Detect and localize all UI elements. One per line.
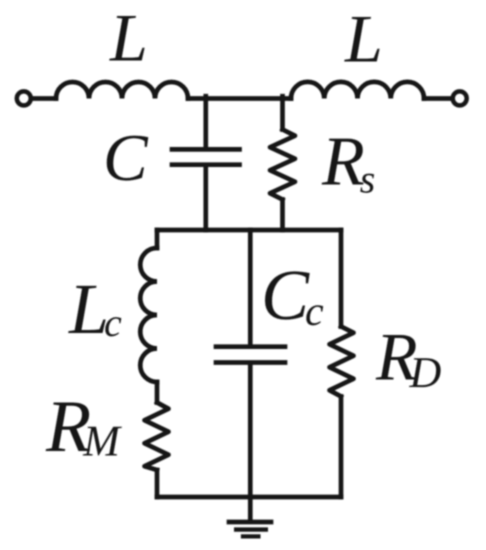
resistor RD: [330, 327, 354, 397]
terminal port right: [453, 91, 467, 105]
wire top rail between inductors: [188, 96, 291, 101]
wire RD to bottom bus: [339, 397, 344, 498]
wire RM to bottom bus: [155, 470, 160, 497]
svg-text:RD: RD: [375, 319, 442, 398]
capacitor C: [172, 149, 240, 164]
wire L2 to right terminal: [424, 96, 453, 101]
capacitor Cc: [216, 347, 285, 363]
wire bus to capacitor Cc: [248, 230, 253, 345]
svg-text:Cc: Cc: [261, 255, 324, 335]
svg-text:Rs: Rs: [321, 124, 375, 202]
svg-text:L: L: [344, 1, 383, 77]
terminal port left: [17, 91, 31, 105]
svg-text:L: L: [109, 0, 148, 76]
svg-text:Lc: Lc: [68, 269, 122, 349]
svg-text:C: C: [103, 121, 149, 195]
wire bottom bus: [157, 495, 341, 500]
wire bus to inductor Lc: [155, 230, 160, 248]
resistor Rs: [270, 130, 295, 200]
wire Lc to RM: [155, 382, 160, 403]
inductor L1: [56, 82, 188, 99]
svg-text:RM: RM: [45, 386, 122, 468]
ground: [229, 520, 271, 525]
wire node to resistor Rs: [280, 96, 285, 129]
wire bus to resistor RD: [339, 230, 344, 327]
resistor RM: [145, 403, 169, 471]
wire upper bus: [157, 228, 341, 233]
wire left-terminal to L1: [31, 96, 56, 101]
wire node to capacitor C: [203, 96, 208, 147]
wire Cc to ground node: [248, 365, 253, 521]
wire resistor Rs to bus: [280, 200, 285, 231]
inductor L2: [291, 82, 424, 99]
wire capacitor C to bus: [203, 167, 208, 230]
inductor Lc: [140, 248, 157, 382]
